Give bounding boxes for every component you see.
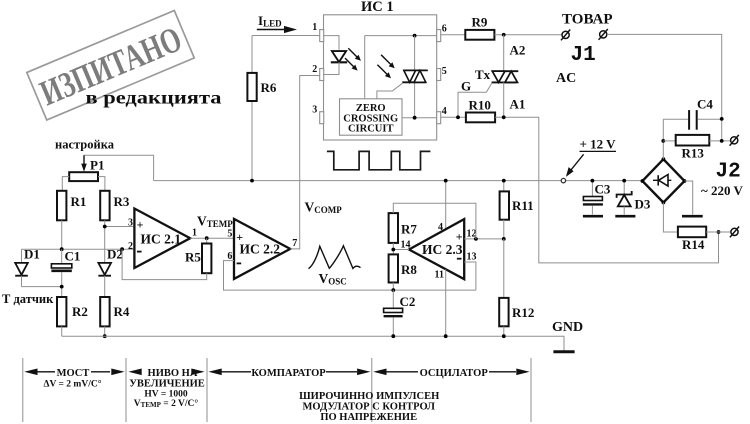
node R6-rail junction (250, 179, 254, 183)
svg-text:7: 7 (292, 238, 297, 249)
wire U2.2 output VCOMP (290, 76, 320, 249)
wire pin4 to R10 (441, 116, 466, 118)
wire pin11 to GND rail (445, 269, 447, 336)
svg-text:D3: D3 (635, 197, 651, 212)
svg-text:ИС 2.1: ИС 2.1 (141, 231, 182, 246)
wiper arrow P1 (83, 155, 85, 164)
svg-text:5: 5 (442, 66, 447, 77)
LED light arrows (348, 48, 357, 57)
photo-triac of optocoupler (403, 69, 427, 71)
svg-text:C4: C4 (697, 97, 713, 112)
svg-text:ШИРОЧИННО ИМПУЛСЕН: ШИРОЧИННО ИМПУЛСЕН (299, 391, 439, 402)
wire triac main column (414, 36, 416, 118)
op-amp U2.3 (ИС 2.3) mirrored (409, 219, 464, 279)
svg-text:УВЕЛИЧЕНИЕ: УВЕЛИЧЕНИЕ (129, 379, 205, 390)
section КОМПАРАТОР arrows (221, 371, 357, 373)
svg-text:C2: C2 (400, 294, 416, 309)
wire A1 column (503, 82, 505, 117)
svg-text:МОДУЛАТОР С КОНТРОЛ: МОДУЛАТОР С КОНТРОЛ (302, 401, 435, 412)
wire detector box left (364, 36, 366, 99)
svg-text:R5: R5 (185, 250, 201, 265)
ground under D3 (615, 215, 635, 218)
svg-text:ИС 2.2: ИС 2.2 (240, 242, 281, 257)
svg-text:GND: GND (552, 320, 583, 335)
node X junction (60, 247, 64, 251)
pin 5 stub (437, 69, 441, 81)
wire A2 column (503, 35, 505, 71)
svg-text:R11: R11 (512, 198, 534, 213)
wire R7 top to pin12 (393, 203, 476, 239)
resistor R9 (465, 30, 494, 40)
wire node Y column (104, 220, 106, 263)
resistor R14 (678, 227, 706, 238)
connector J1 pin a (561, 30, 570, 41)
resistor R5 (206, 238, 208, 243)
ground under C3 (583, 215, 603, 218)
svg-text:P1: P1 (90, 158, 104, 173)
svg-text:6: 6 (442, 24, 447, 35)
wire U2.1 output to U2.2 pin5 (190, 237, 234, 239)
wire LED cathode to pin2 (324, 62, 339, 74)
svg-text:2: 2 (312, 64, 317, 75)
wire P1 right lead (98, 177, 105, 191)
wire P1 left lead (62, 177, 69, 191)
resistor R3 (100, 191, 109, 221)
resistor R11 (503, 181, 505, 192)
wire pin2 row of IC2.1 (22, 248, 135, 250)
svg-text:11: 11 (435, 270, 444, 281)
op-amp U2.1 (ИС 2.1) (134, 209, 190, 269)
wire U2.3 pin4 supply (445, 181, 447, 230)
wire R2 bottom (61, 326, 63, 336)
svg-text:1: 1 (192, 228, 197, 239)
svg-text:+ 12 V: + 12 V (580, 137, 617, 152)
wire J1 pin b to right rail (607, 34, 722, 140)
resistor R12 (503, 239, 505, 298)
svg-text:A1: A1 (510, 97, 526, 112)
wire U2.2 pin6 loop (224, 261, 476, 291)
svg-text:R2: R2 (72, 304, 88, 319)
resistor R8 (389, 254, 398, 282)
wire pin12 row (464, 238, 504, 240)
pin 6 stub (437, 30, 441, 42)
svg-text:R4: R4 (114, 304, 130, 319)
svg-text:Tx: Tx (475, 67, 491, 82)
svg-text:ΔV = 2 mV/C°: ΔV = 2 mV/C° (43, 379, 101, 390)
svg-text:КОМПАРАТОР: КОМПАРАТОР (251, 368, 326, 379)
svg-text:ОСЦИЛАТОР: ОСЦИЛАТОР (420, 368, 489, 379)
resistor R6 (247, 73, 256, 101)
svg-text:CIRCUIT: CIRCUIT (348, 124, 394, 135)
svg-text:HV = 1000: HV = 1000 (144, 389, 187, 399)
svg-text:МОСТ: МОСТ (57, 368, 90, 379)
resistor R7 (389, 213, 398, 243)
svg-text:4: 4 (438, 222, 443, 233)
wire R8 bottom to C2 node (392, 283, 394, 291)
svg-text:C1: C1 (65, 249, 81, 264)
waveform VOSC sawtooth (309, 246, 361, 269)
wire pin3 row of IC2.1 (105, 226, 135, 228)
pin 2 stub (320, 69, 324, 81)
node Y junction (103, 225, 107, 229)
resistor R10 (466, 113, 495, 123)
wire +12V rail (154, 180, 643, 182)
bridge rectifier (642, 159, 684, 202)
svg-text:R7: R7 (401, 222, 417, 237)
resistor R2 (57, 297, 66, 326)
section ОСЦИЛАТОР arrows (386, 371, 516, 373)
wire bridge right to ground (685, 181, 693, 215)
svg-text:R10: R10 (469, 98, 491, 113)
wire pin13 loop (464, 262, 476, 290)
svg-text:R13: R13 (682, 146, 705, 161)
svg-text:13: 13 (467, 252, 477, 263)
arrow ILED (257, 29, 286, 31)
svg-text:R3: R3 (114, 194, 130, 209)
wire R6 column (251, 36, 253, 181)
connector J2 pin b (730, 227, 739, 238)
svg-text:14: 14 (401, 240, 411, 251)
svg-text:J2: J2 (716, 161, 741, 184)
op-amp U2.2 (ИС 2.2) (234, 219, 290, 279)
wire Tx gate (458, 83, 492, 117)
svg-text:5: 5 (227, 228, 232, 239)
wire R5 feedback to pin2 (122, 249, 207, 279)
svg-text:A2: A2 (510, 43, 526, 58)
wire GND rail (62, 336, 564, 351)
pin 4 stub (437, 112, 441, 124)
wire LED anode from pin1 (324, 36, 339, 50)
svg-text:D1: D1 (24, 247, 40, 262)
wire R4 bottom (104, 326, 106, 336)
svg-text:1: 1 (312, 22, 317, 33)
terminal +12V open circle (561, 178, 565, 182)
svg-text:ПО НАПРЕЖЕНИЕ: ПО НАПРЕЖЕНИЕ (320, 412, 417, 423)
svg-text:R1: R1 (71, 194, 87, 209)
diode inside bridge (653, 179, 671, 181)
LED of optocoupler (332, 51, 346, 62)
svg-text:Т датчик: Т датчик (2, 292, 54, 306)
triac light arrows (381, 55, 391, 65)
stamp ИЗПИТАНО (27, 11, 194, 120)
svg-text:3: 3 (128, 217, 133, 228)
wire R9 to connector J1 (494, 34, 562, 36)
zero crossing circuit box (340, 99, 403, 135)
section tick lines (23, 358, 531, 422)
wire detector box top / pin6 (365, 35, 437, 37)
optocoupler U1 body (324, 15, 437, 140)
resistor R1 (57, 191, 66, 221)
svg-text:AC: AC (556, 71, 576, 86)
ground under bridge (682, 215, 703, 218)
svg-text:J1: J1 (571, 44, 596, 67)
wire U2.3 output to divider (393, 243, 409, 255)
wire bridge top to R13 node (662, 119, 664, 159)
wire pin4 row inside (402, 117, 437, 119)
wire wiper to rail (84, 155, 154, 180)
svg-text:R14: R14 (682, 237, 705, 252)
node feedback junction (120, 247, 124, 251)
svg-text:~ 220 V: ~ 220 V (701, 183, 744, 198)
resistor R13 (663, 140, 675, 142)
svg-text:C3: C3 (595, 182, 611, 197)
wire pin1 row (252, 35, 320, 37)
svg-text:3: 3 (312, 105, 317, 116)
svg-text:R12: R12 (512, 305, 534, 320)
svg-text:R9: R9 (472, 15, 488, 30)
wire pin6 to R9 (441, 34, 466, 36)
wire node X column (61, 220, 63, 249)
wire bridge bottom to R14 (663, 203, 678, 233)
svg-text:ТОВАР: ТОВАР (562, 12, 613, 28)
waveform square wave (327, 151, 431, 169)
ground symbol (553, 350, 574, 353)
svg-text:НИВО НА: НИВО НА (148, 368, 198, 379)
svg-text:в редакцията: в редакцията (86, 88, 222, 108)
svg-text:ИС 2.3: ИС 2.3 (422, 242, 463, 257)
connector J2 pin a (730, 135, 739, 146)
svg-text:2: 2 (128, 241, 133, 252)
wire A1 node to bottom right run (495, 117, 718, 263)
svg-text:G: G (461, 79, 471, 94)
resistor R4 (100, 297, 109, 326)
svg-text:+: + (456, 230, 463, 244)
arrow +12V pointer (571, 154, 584, 170)
wire photo-triac gate (377, 83, 403, 99)
svg-text:R6: R6 (261, 80, 277, 95)
svg-text:+: + (137, 217, 144, 231)
connector J1 pin b (599, 29, 608, 40)
svg-text:D2: D2 (107, 247, 123, 262)
svg-text:R8: R8 (401, 262, 417, 277)
section МОСТ arrows (37, 371, 110, 373)
svg-text:4: 4 (442, 106, 447, 117)
pin 3 stub (320, 112, 324, 124)
svg-text:настройка: настройка (55, 138, 115, 152)
pin 1 stub (320, 30, 324, 42)
svg-text:ИС 1: ИС 1 (361, 0, 394, 15)
section НИВО НА arrows (128, 369, 141, 376)
wire D1-C1 bottom (22, 287, 62, 297)
